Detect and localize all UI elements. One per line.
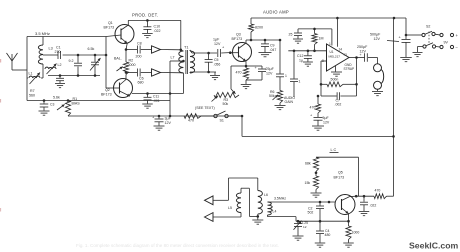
svg-text:560: 560 bbox=[29, 94, 35, 98]
inductor L3 bbox=[38, 37, 52, 65]
wire tank top bbox=[43, 54, 106, 56]
wire feedback left bbox=[321, 61, 327, 96]
wire feedback right bbox=[355, 56, 358, 96]
svg-text:C8: C8 bbox=[137, 42, 142, 46]
wire collector row bbox=[246, 39, 281, 42]
svg-text:12V: 12V bbox=[214, 42, 221, 46]
wire emitter row osc bbox=[296, 220, 350, 223]
wire left vertical bbox=[26, 37, 28, 101]
label R7 560 bbox=[29, 89, 35, 98]
capacitor C10 .022 bbox=[142, 19, 160, 38]
switch S2 bbox=[405, 25, 440, 37]
svg-text:15k: 15k bbox=[305, 181, 311, 185]
capacitor C3 bbox=[39, 99, 55, 115]
capacitor C12 1u bbox=[297, 51, 313, 66]
ground L6 bbox=[252, 214, 263, 224]
transformer T1 core bbox=[186, 50, 188, 74]
wire Q2 emitter bbox=[120, 91, 131, 96]
resistor 15k bbox=[305, 172, 319, 190]
svg-text:L2: L2 bbox=[58, 63, 62, 67]
svg-text:200: 200 bbox=[136, 55, 142, 59]
svg-text:L5: L5 bbox=[228, 206, 232, 210]
battery terminals minus bbox=[440, 41, 459, 51]
switch S2 lower pole bbox=[423, 43, 440, 48]
svg-text:.022: .022 bbox=[154, 29, 161, 33]
svg-text:S1: S1 bbox=[220, 119, 224, 123]
svg-text:Q1: Q1 bbox=[108, 21, 113, 25]
svg-text:9V: 9V bbox=[444, 41, 449, 45]
svg-text:Fig. 1. Complete schematic di: Fig. 1. Complete schematic diagram of th… bbox=[76, 243, 279, 248]
svg-text:12V: 12V bbox=[374, 37, 381, 41]
capacitor C11 .001 bbox=[142, 94, 159, 109]
capacitor C7 .002 bbox=[321, 92, 357, 106]
ground bias divider bbox=[311, 190, 322, 198]
svg-text:BF173: BF173 bbox=[101, 93, 112, 97]
svg-text:1M: 1M bbox=[319, 37, 324, 41]
svg-text:12V: 12V bbox=[165, 121, 172, 125]
resistor 8200 bbox=[248, 18, 263, 40]
svg-text:.056: .056 bbox=[214, 63, 221, 67]
svg-text:C3: C3 bbox=[50, 103, 54, 107]
capacitor 3uF 12V bbox=[152, 115, 172, 131]
resistor 470 emitter bbox=[236, 65, 249, 80]
svg-text:Q3: Q3 bbox=[236, 33, 241, 37]
wire Q2 emitter row bbox=[132, 92, 183, 95]
wire osc output row bbox=[356, 195, 374, 197]
wire Q5 emitter bbox=[342, 208, 349, 221]
wire T1 primary bottom bbox=[182, 73, 184, 94]
potentiometer R6 50k AUDIO GAIN bbox=[269, 90, 295, 104]
svg-text:68k: 68k bbox=[305, 162, 311, 166]
svg-text:Q5: Q5 bbox=[338, 171, 343, 175]
wire opamp output bbox=[349, 57, 364, 59]
svg-text:6.5k: 6.5k bbox=[88, 47, 95, 51]
wire coupling vertical bbox=[279, 40, 281, 74]
svg-text:470: 470 bbox=[236, 71, 242, 75]
wire Q1 emitter bbox=[121, 38, 127, 50]
wire Q2 base bbox=[106, 87, 120, 89]
svg-text:13: 13 bbox=[344, 53, 348, 57]
antenna bbox=[7, 53, 28, 70]
wire RF top rail bbox=[27, 36, 106, 38]
wire L5 top bridge bbox=[241, 188, 258, 216]
potentiometer R3 50k bbox=[212, 89, 240, 106]
resistor 470 series bbox=[184, 114, 201, 123]
capacitor C2 502 bbox=[308, 202, 325, 221]
capacitor C5 .056 bbox=[192, 52, 220, 74]
svg-text:680: 680 bbox=[138, 81, 144, 85]
wire phones top bbox=[229, 178, 258, 200]
resistor 1000 bbox=[343, 221, 359, 247]
svg-text:C5: C5 bbox=[214, 58, 219, 62]
connector triangle 2 bbox=[205, 213, 242, 222]
capacitor 25 bias bbox=[289, 29, 304, 43]
svg-text:C10: C10 bbox=[154, 25, 161, 29]
wire bias row bbox=[298, 28, 332, 31]
svg-text:R7: R7 bbox=[30, 89, 35, 93]
capacitor 500uF 12V bbox=[370, 18, 411, 57]
wire base line vertical bbox=[105, 37, 108, 89]
faint caption bbox=[76, 243, 279, 248]
svg-text:BF173: BF173 bbox=[104, 26, 115, 30]
capacitor 1uF 12V series bbox=[213, 38, 230, 58]
wire osc rail bbox=[316, 156, 359, 158]
svg-text:BF173: BF173 bbox=[232, 37, 243, 41]
wire emitter to R3 bbox=[231, 66, 246, 89]
svg-text:.001: .001 bbox=[153, 99, 160, 103]
svg-text:12V: 12V bbox=[323, 121, 330, 125]
wire opamp input bbox=[288, 50, 326, 53]
svg-text:5.6k: 5.6k bbox=[53, 96, 60, 100]
svg-text:R2: R2 bbox=[129, 59, 134, 63]
svg-text:Q2: Q2 bbox=[105, 88, 110, 92]
svg-text:L6: L6 bbox=[264, 193, 268, 197]
wire T1 top feed bbox=[180, 20, 183, 51]
wire Q5 base row bbox=[268, 201, 336, 204]
svg-text:C11: C11 bbox=[153, 95, 159, 99]
svg-text:S2: S2 bbox=[426, 25, 430, 29]
svg-text:1μ: 1μ bbox=[299, 59, 303, 63]
scan specks left edge bbox=[0, 59, 1, 212]
wire L5 bottom bbox=[240, 213, 242, 218]
wire tap vertical bbox=[169, 61, 172, 117]
svg-text:C12: C12 bbox=[297, 54, 303, 58]
resistor 470 filter bbox=[310, 95, 321, 113]
svg-text:GAIN: GAIN bbox=[285, 100, 294, 104]
svg-text:AUDIO AMP: AUDIO AMP bbox=[263, 10, 289, 15]
variable capacitor 6.5k bbox=[88, 47, 101, 77]
capacitor coupling 2 bbox=[290, 50, 301, 98]
connector triangle 1 bbox=[205, 196, 229, 205]
svg-text:R1: R1 bbox=[73, 97, 78, 101]
svg-text:C9: C9 bbox=[270, 44, 275, 48]
svg-text:L3: L3 bbox=[49, 47, 53, 51]
ground Q3 emitter bbox=[241, 80, 252, 89]
svg-text:T1: T1 bbox=[184, 46, 188, 50]
inductor L1 bbox=[27, 68, 43, 84]
svg-text:C1: C1 bbox=[56, 46, 61, 50]
svg-text:3.5MHz: 3.5MHz bbox=[274, 197, 286, 201]
wire prod det rail bbox=[128, 19, 181, 21]
wire tank bottom bbox=[48, 75, 100, 77]
wire pin1 bbox=[329, 29, 332, 46]
wire secondary bottom bbox=[190, 72, 216, 73]
svg-text:470: 470 bbox=[310, 106, 316, 110]
resistor 68k bbox=[305, 157, 319, 174]
svg-text:12V: 12V bbox=[266, 72, 273, 76]
capacitor C8 200 bbox=[126, 42, 152, 59]
svg-text:9.2: 9.2 bbox=[69, 59, 74, 63]
wire lower bus bbox=[68, 115, 242, 117]
svg-text:.002: .002 bbox=[335, 103, 342, 107]
svg-text:MEL217: MEL217 bbox=[329, 55, 341, 59]
wire S1 to LC bbox=[241, 115, 244, 137]
svg-text:3.5 MHz: 3.5 MHz bbox=[35, 31, 50, 36]
wire S2 lower to ground bbox=[413, 47, 424, 57]
battery terminals plus bbox=[440, 33, 459, 38]
wire Q2 collector bbox=[120, 75, 127, 86]
svg-text:270: 270 bbox=[55, 50, 61, 54]
svg-text:L7: L7 bbox=[171, 56, 175, 60]
diode arrow bottom bbox=[152, 69, 184, 76]
wire Q5 collector bbox=[342, 196, 357, 200]
switch S1 bbox=[201, 111, 242, 123]
capacitor C9 .047 bbox=[259, 40, 277, 57]
inductor L5 bbox=[228, 193, 241, 213]
ground supply bbox=[400, 58, 412, 62]
svg-text:14: 14 bbox=[339, 48, 343, 52]
svg-text:1: 1 bbox=[299, 80, 301, 84]
potentiometer R1 BIAS bbox=[53, 96, 80, 117]
resistor 1M bbox=[312, 29, 324, 52]
svg-text:12: 12 bbox=[303, 225, 307, 229]
transformer T1 secondary bbox=[190, 50, 195, 73]
svg-text:.022: .022 bbox=[370, 204, 377, 208]
jack phones bbox=[374, 58, 384, 90]
svg-text:+: + bbox=[360, 53, 362, 57]
svg-text:L4: L4 bbox=[273, 210, 277, 214]
capacitor 250uF 12V bbox=[357, 45, 378, 62]
ground jack bbox=[372, 89, 383, 95]
svg-text:502: 502 bbox=[308, 211, 314, 215]
transistor Q5 BF173 bbox=[334, 171, 356, 215]
label SEE TEXT bbox=[195, 106, 215, 110]
label LC bbox=[330, 148, 339, 153]
capacitor .1 coupling bbox=[276, 74, 287, 91]
svg-text:250μF: 250μF bbox=[357, 45, 368, 49]
transistor Q2 BF173 bbox=[101, 79, 133, 98]
inductor L2 bbox=[45, 63, 62, 74]
wire Q3 emitter bbox=[239, 56, 247, 67]
wire Q1 base bbox=[106, 35, 121, 37]
label 3.5MHz osc bbox=[274, 197, 286, 201]
label 3.5 MHz bbox=[35, 31, 50, 36]
svg-text:480: 480 bbox=[325, 233, 331, 237]
svg-text:5μF: 5μF bbox=[323, 116, 329, 120]
svg-text:2000: 2000 bbox=[128, 63, 136, 67]
svg-text:8200: 8200 bbox=[255, 26, 263, 30]
capacitor C6 680 bbox=[126, 69, 152, 85]
op-amp U1 MEL217 bbox=[322, 44, 349, 71]
gang dashed line bbox=[428, 32, 430, 46]
svg-text:1000: 1000 bbox=[352, 231, 360, 235]
svg-text:L C: L C bbox=[331, 148, 337, 152]
label AUDIO AMP bbox=[263, 10, 289, 15]
ground strap bbox=[331, 63, 354, 76]
svg-text:50k: 50k bbox=[269, 94, 275, 98]
inductor L6 bbox=[258, 191, 268, 215]
capacitor to ground small bbox=[55, 74, 65, 88]
svg-text:SeekIC.com: SeekIC.com bbox=[409, 241, 459, 251]
wire Q1 collector bbox=[121, 20, 128, 30]
wire L4 bottom link bbox=[268, 215, 297, 221]
svg-text:1: 1 bbox=[285, 74, 287, 78]
wire Q3 collector bbox=[239, 40, 247, 49]
wire LC feed row bbox=[242, 135, 395, 138]
svg-text:500μF: 500μF bbox=[370, 33, 381, 37]
svg-text:500n: 500n bbox=[331, 78, 339, 82]
wire Q3 base bbox=[229, 51, 239, 54]
capacitor .022 osc bbox=[359, 195, 377, 216]
capacitor C1 270 bbox=[55, 46, 61, 60]
ground R6 bbox=[275, 103, 286, 110]
svg-text:1μF: 1μF bbox=[213, 38, 220, 42]
svg-text:BAL.: BAL. bbox=[114, 57, 122, 61]
svg-text:PROD. DET.: PROD. DET. bbox=[132, 13, 159, 18]
svg-text:BIAS: BIAS bbox=[72, 102, 81, 106]
capacitor 25uF 12V bbox=[246, 66, 275, 80]
svg-text:470: 470 bbox=[375, 189, 381, 193]
transistor Q1 BF173 bbox=[104, 21, 135, 44]
wire audio rail bbox=[251, 17, 406, 19]
wire pin14 bbox=[336, 17, 342, 52]
transistor Q3 BF173 bbox=[232, 33, 252, 62]
svg-text:50k: 50k bbox=[223, 102, 229, 106]
transformer T1 primary bbox=[179, 46, 189, 74]
svg-text:470: 470 bbox=[188, 119, 194, 123]
wire bias bus bbox=[27, 100, 170, 102]
svg-text:STRAP: STRAP bbox=[344, 67, 355, 71]
svg-text:3μF: 3μF bbox=[165, 117, 172, 121]
resistor 500n feedback bbox=[320, 78, 357, 87]
resistor 470 osc bbox=[374, 189, 394, 199]
potentiometer R2 2000 BAL bbox=[114, 48, 136, 74]
svg-text:25μF: 25μF bbox=[266, 67, 275, 71]
trimmer capacitor 1.25 bbox=[293, 220, 309, 240]
ground secondary bbox=[210, 72, 220, 80]
svg-text:BF173: BF173 bbox=[334, 176, 345, 180]
capacitor 9.2 bbox=[69, 54, 83, 77]
watermark SeekIC.com bbox=[409, 241, 459, 251]
svg-text:(SEE TEXT): (SEE TEXT) bbox=[195, 106, 215, 110]
wire supply vertical bbox=[393, 17, 396, 197]
diode arrow top bbox=[152, 46, 181, 53]
wire L7 tap bbox=[170, 56, 185, 63]
capacitor C4 480 bbox=[315, 221, 331, 247]
svg-text:.047: .047 bbox=[270, 48, 277, 52]
svg-text:U1: U1 bbox=[330, 50, 334, 54]
label PROD. DET. bbox=[132, 13, 159, 18]
svg-text:25: 25 bbox=[289, 33, 293, 37]
svg-text:L1: L1 bbox=[29, 72, 33, 76]
wire osc collector rail bbox=[355, 157, 359, 197]
capacitor 5uF 12V bbox=[310, 113, 330, 130]
wire L3 bottom bbox=[42, 64, 44, 68]
inductor L4 bbox=[268, 202, 277, 215]
